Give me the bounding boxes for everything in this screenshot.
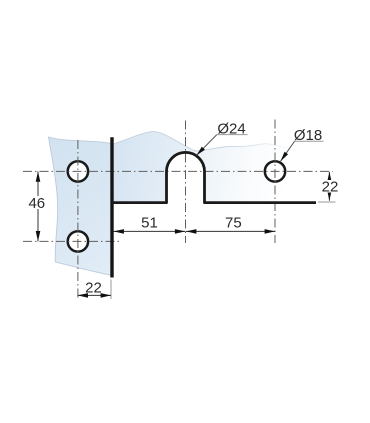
hole circle right (Ø18) bbox=[265, 161, 285, 181]
svg-text:46: 46 bbox=[28, 195, 45, 212]
dimension 75 (horizontal) bbox=[186, 215, 275, 234]
centerline horizontal bottom-left hole bbox=[23, 240, 121, 242]
svg-text:75: 75 bbox=[225, 215, 242, 232]
hole circle bottom-left bbox=[68, 231, 88, 251]
notch interior cutout (white) bbox=[167, 152, 205, 202]
glass panel left (vertical pane) bbox=[49, 137, 112, 275]
centerline vertical left holes bbox=[77, 140, 79, 301]
glass panel horizontal (pane behind bracket arm) bbox=[112, 132, 313, 202]
centerline horizontal top (through holes and notch) bbox=[23, 170, 333, 172]
dimension 51 (horizontal) bbox=[114, 215, 186, 234]
hole circle top-left bbox=[68, 161, 88, 181]
bracket arm outline with Ø24 notch bbox=[112, 152, 316, 202]
svg-text:22: 22 bbox=[85, 279, 102, 296]
svg-text:Ø18: Ø18 bbox=[294, 127, 322, 144]
bracket back plate (thick vertical line) bbox=[110, 137, 113, 277]
svg-text:51: 51 bbox=[141, 215, 158, 232]
dimension 22 (right vertical) bbox=[318, 172, 340, 202]
leader Ø24 (notch diameter callout) bbox=[196, 121, 247, 156]
centerline vertical right hole bbox=[274, 120, 276, 244]
dimension 46 (left vertical) bbox=[27, 171, 47, 241]
leader Ø18 (hole diameter callout) bbox=[281, 127, 324, 161]
svg-text:Ø24: Ø24 bbox=[217, 121, 245, 138]
centerline vertical notch bbox=[185, 121, 187, 244]
dimension 22 (bottom horizontal) bbox=[78, 279, 111, 299]
glass top edge line bbox=[112, 132, 301, 151]
svg-text:22: 22 bbox=[322, 178, 339, 195]
